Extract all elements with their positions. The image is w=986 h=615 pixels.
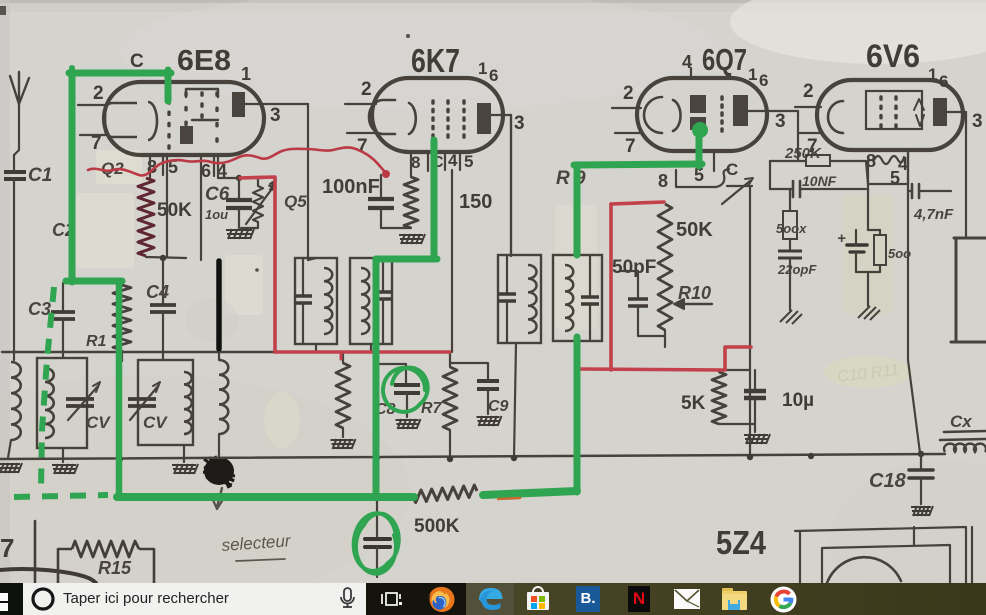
label 6E8 <box>177 45 231 77</box>
red wire C6 to AVC <box>240 177 275 352</box>
wire 500x top <box>789 189 791 211</box>
label 500x <box>776 221 807 236</box>
wire 50pF top <box>620 271 638 298</box>
label 6K7 <box>411 42 460 79</box>
label 5K <box>681 393 706 414</box>
label 10nF <box>802 173 837 189</box>
pins 1 6 6V6 <box>928 65 948 91</box>
wire 250K right <box>830 161 868 184</box>
pin 3 6E8 <box>270 105 281 126</box>
label C8 <box>375 401 396 418</box>
pin 2 6E8 <box>78 83 107 105</box>
green line IF2 up <box>574 166 581 492</box>
wire C1 to coil <box>13 179 15 360</box>
wire C3 to box1 <box>62 319 64 358</box>
IF1 box primary <box>295 258 337 344</box>
ground C9 <box>477 416 502 426</box>
wire 6Q7 out down <box>749 187 751 458</box>
capacitor 4.7nF <box>908 184 951 198</box>
resistor 500 <box>868 230 886 272</box>
capacitor C8 <box>394 385 420 393</box>
label Q5 <box>284 192 307 211</box>
IF2 box secondary <box>553 255 602 341</box>
svg-text:8: 8 <box>658 171 668 191</box>
tube 6K7 grids <box>431 99 465 139</box>
green line bottom bus <box>117 493 414 501</box>
resistor 250K box <box>806 155 830 166</box>
green line left vertical <box>69 73 76 282</box>
wire circled cap top <box>374 458 381 538</box>
wire 6K7 pin8 down <box>410 152 412 177</box>
junction dots bus <box>117 451 924 462</box>
tube 6V6 grids <box>879 95 897 129</box>
pins 1 6 6K7 <box>478 59 498 85</box>
red junction dot <box>382 170 390 178</box>
ground 6K7 cathode <box>399 234 425 244</box>
svg-text:50pF: 50pF <box>612 257 656 278</box>
wire 6E8 plate to node <box>245 104 308 260</box>
IF2 secondary coil <box>565 265 573 331</box>
coil box1 <box>45 368 54 438</box>
label C9 <box>488 398 509 415</box>
capacitor 50pF <box>628 299 648 306</box>
IF1 primary cap <box>294 258 312 344</box>
resistor R1 <box>113 281 131 362</box>
label R15 <box>98 558 132 578</box>
wire 6V6 cathode down <box>908 150 920 453</box>
label C2 <box>52 220 75 240</box>
wire 5K bottom <box>719 424 755 432</box>
green line grid 6E8 <box>69 68 171 101</box>
wire electrolytic top <box>867 189 869 230</box>
wire coil3 down <box>218 434 220 458</box>
tube 5Z4 circle top <box>827 557 901 583</box>
IF1 secondary cap <box>374 258 392 344</box>
ground box2 <box>172 464 198 474</box>
svg-text:10µ: 10µ <box>782 390 814 411</box>
wire bottom left vertical <box>34 521 37 583</box>
svg-text:+: + <box>837 230 846 247</box>
svg-text:2: 2 <box>623 83 634 104</box>
svg-text:6Q7: 6Q7 <box>702 42 747 77</box>
label 150 <box>459 191 492 213</box>
svg-text:7: 7 <box>0 533 14 563</box>
svg-text:2: 2 <box>361 79 372 100</box>
capacitor 100nF <box>368 175 411 228</box>
svg-text:7: 7 <box>625 136 636 157</box>
label 5Z4 <box>716 524 767 561</box>
orange mark under green <box>498 498 520 499</box>
capacitor C6 <box>226 178 252 228</box>
green line bottom right <box>483 491 577 495</box>
wire C8 top <box>380 364 406 384</box>
output transformer bracket <box>951 238 986 342</box>
green circle around bottom cap <box>354 513 399 573</box>
capacitor 10u <box>744 370 766 424</box>
green line R1 vertical <box>116 281 123 497</box>
svg-text:6E8: 6E8 <box>177 45 231 77</box>
label 7 bottom <box>0 533 14 563</box>
svg-text:5Z4: 5Z4 <box>716 524 767 561</box>
wire C8 down <box>406 393 408 417</box>
ground C8 <box>396 419 421 429</box>
svg-text:3: 3 <box>514 113 525 134</box>
ground C6 <box>226 229 254 239</box>
coil Cx <box>944 444 986 452</box>
label C top cap 6E8 <box>130 51 144 72</box>
store icon <box>525 586 551 613</box>
svg-text:Cx: Cx <box>950 412 973 431</box>
ground C18 <box>911 506 933 516</box>
wire 6K7 pin4 down <box>451 170 453 352</box>
svg-text:1: 1 <box>241 64 251 84</box>
wire coil3 top <box>218 352 220 360</box>
wire IF1 primary bottom <box>315 344 317 352</box>
svg-text:R1: R1 <box>86 333 107 350</box>
svg-text:22opF: 22opF <box>777 262 817 277</box>
capacitor Cx lines <box>940 431 986 440</box>
resistor 500x box <box>783 211 797 239</box>
wire 6V6 cathode squiggle <box>874 156 904 164</box>
wire node to IF1 <box>308 258 316 260</box>
pins 8 5 6 4 6E8 <box>147 156 227 181</box>
wiper arrow R10 <box>674 299 712 309</box>
taskbar <box>0 583 986 615</box>
pin 1 6E8 <box>241 64 251 84</box>
svg-text:5oox: 5oox <box>776 221 807 236</box>
tube 6Q7 plate <box>733 95 748 126</box>
scribble blob <box>203 456 235 488</box>
label 500 <box>888 246 911 261</box>
rectifier 5Z4 outline <box>795 527 972 583</box>
edge active tile <box>466 583 514 615</box>
svg-text:7: 7 <box>91 133 102 154</box>
svg-text:10NF: 10NF <box>802 173 837 189</box>
svg-text:C9: C9 <box>488 398 509 415</box>
tube 6E8 grid link <box>186 89 218 120</box>
wire 220pF down <box>789 258 791 310</box>
ground 500x <box>780 310 802 324</box>
tube 6V6 inner box <box>866 91 922 129</box>
label 6V6 <box>866 38 920 74</box>
pin 2 6V6 <box>795 81 821 107</box>
pin 7 6Q7 <box>615 133 641 157</box>
capacitor C18 <box>909 454 933 504</box>
svg-text:C4: C4 <box>146 282 169 302</box>
tube 6E8 cathode <box>105 102 157 140</box>
wire 6K7 plate out <box>491 115 511 256</box>
svg-text:2: 2 <box>803 81 814 102</box>
coil padding <box>219 360 228 434</box>
wire curve bottom left <box>0 569 96 583</box>
wire 6V6 pin brackets <box>868 150 908 190</box>
label asterisk <box>268 178 277 203</box>
wire 250K left <box>770 160 806 162</box>
wire AVC bus <box>2 351 451 353</box>
correction-fluid pale patches <box>76 150 912 448</box>
svg-text:8: 8 <box>411 153 420 172</box>
svg-text:3: 3 <box>972 111 983 132</box>
microphone icon <box>341 588 354 607</box>
folder icon <box>722 588 748 611</box>
pin 2 6K7 <box>345 79 376 104</box>
capacitor 220pF <box>778 251 802 258</box>
label C6 <box>205 184 230 205</box>
svg-text:C: C <box>130 51 144 72</box>
IF1 primary coil <box>324 268 332 334</box>
label 4.7nF <box>913 206 954 223</box>
svg-text:C1: C1 <box>28 165 52 186</box>
mail icon <box>674 588 700 610</box>
netflix icon <box>628 586 650 612</box>
svg-text:2: 2 <box>93 83 104 104</box>
tube 6Q7 cathode <box>644 97 681 133</box>
wire 5K top <box>719 369 750 371</box>
green dashed horizontal <box>14 495 108 497</box>
wire 50pF bottom <box>638 306 665 336</box>
label 6Q7 <box>702 42 747 77</box>
svg-text:R 9: R 9 <box>556 168 586 189</box>
wire node A down to C3 <box>62 283 64 311</box>
red over AVC bus <box>275 352 450 359</box>
red wavy AVC line <box>88 147 385 175</box>
capacitor CV1 <box>66 382 100 420</box>
wire 6Q7 diode arrow <box>722 178 753 204</box>
tube 6V6 beam marks <box>914 99 924 126</box>
svg-text:3: 3 <box>270 105 281 126</box>
svg-text:4,7nF: 4,7nF <box>913 206 954 223</box>
label R7 <box>421 400 443 417</box>
label 10u <box>782 390 814 411</box>
tube 6E8 small anode <box>180 126 193 144</box>
wire ground bus <box>0 454 945 459</box>
ground box1 <box>52 464 78 474</box>
arrow selecteur <box>213 488 222 509</box>
svg-text:3: 3 <box>775 111 786 132</box>
capacitor electrolytic <box>837 230 867 272</box>
label 100nF <box>322 176 380 198</box>
wire box2 down <box>183 445 185 462</box>
ink speck <box>406 34 410 38</box>
search box <box>23 583 366 615</box>
label CV1 <box>86 413 111 432</box>
ground electrolytic <box>858 306 880 320</box>
label C1 <box>28 165 52 186</box>
wire antenna down <box>14 104 19 171</box>
svg-text:C18: C18 <box>869 470 907 492</box>
resistor 500K <box>413 485 477 503</box>
wire 10nF left <box>770 161 792 189</box>
svg-text:100nF: 100nF <box>322 176 380 198</box>
pins 1 6 6Q7 <box>748 65 768 90</box>
tube 6K7 plate <box>477 103 491 134</box>
svg-text:6: 6 <box>201 161 211 181</box>
wire 10nF right <box>801 188 866 190</box>
label 500K <box>414 516 460 537</box>
pins 8 4 5 6V6 <box>866 151 908 188</box>
label C3 <box>28 299 51 319</box>
svg-text:1: 1 <box>748 65 757 84</box>
cortana ring <box>23 583 366 615</box>
label Q2 <box>101 159 124 178</box>
firefox icon <box>428 586 456 613</box>
olive right section <box>514 583 986 615</box>
svg-text:50K: 50K <box>676 219 713 241</box>
svg-text:5K: 5K <box>681 393 706 414</box>
label 50K left <box>157 200 192 221</box>
B tile icon <box>576 586 600 612</box>
ground antenna coil <box>0 463 22 473</box>
coil box2 <box>184 372 192 434</box>
IF1 box secondary <box>350 258 392 344</box>
label R1 <box>86 333 107 350</box>
IF2 primary coil <box>528 265 537 333</box>
pins 8 C 4 5 6K7 <box>411 151 473 172</box>
wire 6K7 plate to IF2 <box>510 115 512 256</box>
resistor Q5 trimmer <box>241 178 276 228</box>
resistor 5K <box>712 370 726 424</box>
svg-text:250K: 250K <box>784 145 822 162</box>
svg-text:Q5: Q5 <box>284 192 307 211</box>
IF1 secondary coil <box>361 268 369 334</box>
wire 6E8 pin4 down <box>218 155 239 178</box>
wire R7 to C9 <box>450 363 488 380</box>
task view icon <box>366 583 466 615</box>
wire IF2 primary bottom <box>514 343 516 458</box>
wire 6E8 pin5 down <box>166 155 168 257</box>
start button windows logo fragment <box>0 583 23 615</box>
oscillator box2 <box>138 360 193 445</box>
wire C6 top <box>236 175 264 181</box>
svg-text:6K7: 6K7 <box>411 42 460 79</box>
svg-text:150: 150 <box>459 191 492 213</box>
label R10 <box>678 283 711 303</box>
oscillator box1 <box>37 358 87 448</box>
svg-text:1ou: 1ou <box>205 207 228 222</box>
svg-text:6: 6 <box>759 71 768 90</box>
tube 6V6 cathode <box>828 101 843 133</box>
green dashed line <box>41 287 54 490</box>
svg-text:4: 4 <box>448 151 458 170</box>
resistor 50K pot <box>658 204 672 347</box>
green line to 6Q7 <box>574 126 705 167</box>
pins 8 5 C 6Q7 <box>658 160 738 191</box>
tube 6E8 envelope <box>104 82 264 155</box>
tube 6V6 envelope <box>817 80 963 150</box>
svg-text:5oo: 5oo <box>888 246 911 261</box>
wire 6E8 pin8 down <box>149 155 151 177</box>
wire 6E8 pin6 down <box>200 155 202 260</box>
svg-text:6V6: 6V6 <box>866 38 920 74</box>
resistor R2 50K <box>138 178 154 256</box>
label 50K right <box>676 219 713 241</box>
resistor AVC <box>336 352 350 437</box>
red annotation box R10 <box>580 202 751 370</box>
svg-text:R15: R15 <box>98 558 132 578</box>
tube 6Q7 grid <box>720 95 723 133</box>
label Cx <box>950 412 973 431</box>
resistor R7 <box>443 352 457 460</box>
google chrome G icon <box>770 586 797 613</box>
label C18 <box>869 470 907 492</box>
svg-text:1: 1 <box>478 59 487 78</box>
resistor R15 <box>58 541 154 583</box>
IF2 primary cap <box>498 255 516 343</box>
green circle around C8 <box>383 368 428 412</box>
wire 6Q7 pin brackets <box>676 152 752 187</box>
label 10uF <box>205 207 228 222</box>
IF2 secondary cap <box>581 255 599 341</box>
label CV2 <box>143 413 168 432</box>
capacitor circled <box>365 539 390 577</box>
tube 6E8 grids <box>167 91 218 150</box>
wire 500x to 220pF <box>789 239 791 250</box>
wire IF1 secondary bottom <box>370 344 372 352</box>
svg-text:6: 6 <box>939 72 948 91</box>
svg-text:CV: CV <box>143 413 168 432</box>
pin 3 6Q7 <box>775 111 786 132</box>
capacitor 10nF <box>793 181 800 197</box>
hand-drawn black mark <box>216 261 222 349</box>
label R9 <box>556 168 586 189</box>
tube 6Q7 diode plates <box>690 95 706 130</box>
pin 7 6V6 <box>798 133 821 157</box>
pin 2 6Q7 <box>612 83 641 108</box>
green corner node A <box>66 278 122 285</box>
tube 6K7 envelope <box>372 78 503 152</box>
label 220pF <box>777 262 817 277</box>
resistor 6K7 cathode <box>404 177 418 228</box>
IF2 box primary <box>498 255 541 343</box>
label 250K <box>784 145 822 162</box>
svg-text:1: 1 <box>928 65 937 84</box>
capacitor C3 <box>51 312 75 319</box>
wire 6V6 plate out <box>947 112 966 238</box>
svg-text:CV: CV <box>86 413 111 432</box>
pin 7 6K7 <box>347 133 376 157</box>
wire electrolytic bottom <box>856 272 880 306</box>
antenna <box>10 72 29 104</box>
ground AVC resistor <box>331 439 356 449</box>
pin 3 6K7 <box>514 113 525 134</box>
pin 3 6V6 <box>972 111 983 132</box>
capacitor C4 <box>150 305 176 312</box>
tube 6Q7 envelope <box>637 78 767 151</box>
label C4 <box>146 282 169 302</box>
green line 6K7 down <box>376 140 437 497</box>
svg-text:6: 6 <box>489 66 498 85</box>
label 50pF <box>612 257 656 278</box>
ink speck 2 <box>255 268 259 272</box>
tube 6V6 plate <box>933 98 947 126</box>
tube 6K7 cathode <box>369 100 416 134</box>
capacitor C9 <box>477 381 499 389</box>
pin 7 6E8 <box>80 133 107 154</box>
svg-text:5: 5 <box>464 152 473 171</box>
svg-text:50K: 50K <box>157 200 192 221</box>
capacitor C1 <box>4 172 26 179</box>
wire C4 to box2 <box>162 312 164 360</box>
capacitor CV2 <box>128 382 160 420</box>
tube 6E8 plate <box>232 92 245 117</box>
svg-text:C3: C3 <box>28 299 51 319</box>
wire box1 down <box>62 448 64 462</box>
wire 50K to C4 node <box>146 255 186 261</box>
pin 4 6Q7 top <box>682 52 692 79</box>
label selecteur <box>221 531 292 561</box>
ground 10u <box>744 434 770 444</box>
wire 6Q7 plate out <box>748 111 798 161</box>
